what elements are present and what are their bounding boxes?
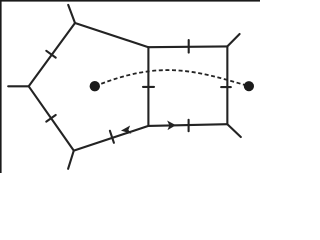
tick on pentagon bottom-left edge (46, 115, 55, 122)
pentagon edge top-right (P_top to square TL) (75, 23, 148, 47)
square bottom edge (148, 124, 227, 126)
square top edge (148, 45, 227, 48)
top border line (0, 0, 260, 2)
tick on pentagon bottom-right edge (110, 131, 114, 143)
pendant edge at P_top (68, 5, 75, 23)
tick on square bottom edge (188, 120, 190, 131)
pendant edge at P_left (8, 85, 29, 87)
tick on pentagon top-left edge (46, 51, 55, 58)
pentagon edge bottom-right (P_bottom to square BL) (74, 126, 149, 151)
tick on square top edge (188, 40, 190, 53)
pendant edge at P_bottom (68, 151, 74, 169)
tick on square right edge (221, 86, 231, 88)
dashed curve between the two marked vertices (95, 70, 249, 86)
left border line (0, 0, 2, 173)
shared vertical edge (square left side) (147, 47, 149, 126)
pentagon edge bottom-left (P_left to P_bottom) (29, 86, 74, 150)
tick on square left edge (143, 86, 154, 88)
pendant edge at square TR (227, 34, 239, 46)
pendant edge at square BR (227, 124, 240, 137)
arrow on square bottom edge (points right) (167, 121, 176, 131)
square right edge (226, 46, 228, 124)
pentagon edge top-left (P_top to P_left) (29, 23, 75, 86)
arrow on pentagon bottom-right edge (points toward P_bottom) (121, 126, 132, 134)
marked vertex dot (right) (244, 81, 254, 91)
marked vertex dot (left, inside pentagon) (90, 81, 100, 91)
